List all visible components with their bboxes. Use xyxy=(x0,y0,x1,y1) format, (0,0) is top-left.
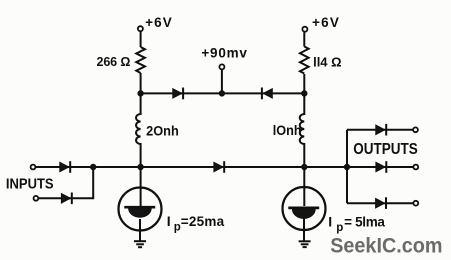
resistor R2 114ohm xyxy=(300,47,309,74)
terminal +90mv xyxy=(219,64,224,69)
diode D5 xyxy=(214,162,223,171)
node E (L1 / bus junction) xyxy=(138,164,143,169)
node D (input junction) xyxy=(91,164,96,169)
svg-text:266 Ω: 266 Ω xyxy=(97,55,131,69)
wire TD2 bottom lead xyxy=(303,219,305,242)
wire output bottom branch xyxy=(347,202,413,204)
node G (outputs junction) xyxy=(344,164,349,169)
terminal output top xyxy=(413,127,418,132)
wire xyxy=(221,70,223,94)
svg-text:p: p xyxy=(336,222,343,234)
ground G2 xyxy=(299,240,311,242)
svg-text:I: I xyxy=(167,213,171,229)
wire xyxy=(140,31,142,47)
inductor L1 20nh xyxy=(136,93,141,167)
svg-text:OUTPUTS: OUTPUTS xyxy=(353,141,418,158)
svg-text:+6V: +6V xyxy=(145,15,172,30)
tunnel diode TD2 bar xyxy=(288,207,319,210)
ground G1 xyxy=(134,240,146,242)
tunnel diode TD1 dome xyxy=(129,208,152,217)
diode D6 xyxy=(376,125,385,134)
diode D3 xyxy=(173,89,182,98)
svg-text:INPUTS: INPUTS xyxy=(6,175,54,192)
terminal +6V left xyxy=(138,26,143,31)
tunnel diode TD1 circle xyxy=(119,188,162,231)
wire TD1 top lead xyxy=(140,167,142,206)
terminal +6V right xyxy=(302,27,307,32)
diode D2 xyxy=(61,194,70,203)
wire xyxy=(140,73,142,93)
diode D4 xyxy=(263,89,272,98)
diode D8 xyxy=(376,199,385,208)
inductor L2 10nh xyxy=(300,93,305,167)
node C (114/10nh junction) xyxy=(302,91,307,96)
svg-text:SeekIC.com: SeekIC.com xyxy=(330,234,442,257)
svg-text:+90mv: +90mv xyxy=(201,46,247,61)
wire xyxy=(303,74,305,93)
svg-text:= 5lma: = 5lma xyxy=(344,214,385,229)
terminal output middle xyxy=(413,165,418,170)
node B (+90mv junction) xyxy=(219,91,224,96)
diode D1 xyxy=(60,162,69,171)
wire TD1 bottom lead xyxy=(139,219,141,241)
svg-text:+6V: +6V xyxy=(312,15,339,30)
wire main bus y=167 xyxy=(36,166,414,168)
svg-text:ll4 Ω: ll4 Ω xyxy=(313,54,341,69)
tunnel diode TD1 bar xyxy=(124,206,155,209)
svg-text:2Onh: 2Onh xyxy=(146,123,179,139)
diode D7 xyxy=(376,162,385,171)
node A (266/20nh junction) xyxy=(138,91,143,96)
terminal input top xyxy=(31,165,36,170)
wire output top branch xyxy=(347,129,413,131)
svg-text:p: p xyxy=(174,222,181,234)
svg-text:lOnh: lOnh xyxy=(273,122,302,138)
wire xyxy=(303,32,305,47)
terminal output bottom xyxy=(413,201,418,206)
tunnel diode TD2 circle xyxy=(283,187,326,230)
resistor R1 266ohm xyxy=(136,47,145,73)
terminal input bottom xyxy=(34,196,39,201)
wire input bottom xyxy=(38,167,93,198)
wire top bus y=93.4 xyxy=(141,92,305,94)
svg-text:I: I xyxy=(328,213,332,229)
svg-text:=25ma: =25ma xyxy=(181,214,225,229)
tunnel diode TD2 dome xyxy=(292,209,315,218)
node F (L2 / bus junction) xyxy=(302,164,307,169)
wire outputs vertical xyxy=(346,130,348,203)
wire TD2 top lead xyxy=(303,167,305,206)
